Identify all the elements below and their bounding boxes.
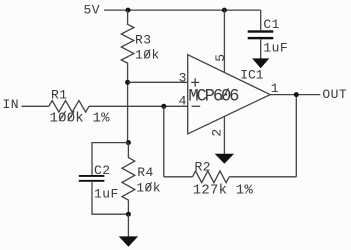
junction C2/R4 bottom (126, 212, 131, 217)
wire C1 drop (260, 10, 262, 30)
junction 5V/pin5 (222, 8, 227, 13)
svg-text:100k 1%: 100k 1% (50, 110, 111, 126)
svg-text:1: 1 (271, 81, 279, 96)
pin 5 wire (223, 10, 225, 73)
svg-text:C1: C1 (263, 17, 280, 32)
wire C2 top (92, 143, 128, 175)
svg-text:1uF: 1uF (94, 187, 119, 202)
svg-text:R3: R3 (135, 32, 152, 47)
svg-text:127k 1%: 127k 1% (193, 183, 254, 199)
wire R1 to pin4 (89, 105, 188, 107)
junction 5V/R3 (126, 8, 131, 13)
svg-text:2: 2 (209, 128, 224, 136)
svg-text:3: 3 (179, 70, 187, 85)
svg-text:4: 4 (179, 93, 187, 108)
wire output (270, 94, 320, 96)
svg-text:5V: 5V (84, 3, 101, 18)
svg-text:IN: IN (3, 97, 20, 112)
wire pin3 row (128, 81, 188, 83)
ground at pin 2 (215, 154, 234, 164)
svg-text:OUT: OUT (322, 87, 347, 102)
svg-text:1uF: 1uF (263, 40, 288, 55)
wire to main ground (127, 214, 129, 236)
resistor R3 (121, 10, 134, 143)
opamp plus input symbol (191, 78, 199, 87)
pin 2 wire (223, 117, 225, 155)
resistor R4 (122, 143, 135, 215)
svg-text:10k: 10k (136, 181, 161, 196)
wire C1 to ground (260, 39, 262, 58)
ground at C1 (252, 58, 269, 68)
wire 5V rail (104, 9, 261, 11)
svg-text:IC1: IC1 (240, 67, 264, 82)
junction output node (294, 92, 299, 97)
svg-text:10k: 10k (135, 48, 160, 63)
wire feedback vertical (163, 106, 165, 177)
wire output column vertical (295, 95, 297, 177)
svg-text:5: 5 (213, 54, 228, 62)
wire C2 bottom (92, 182, 128, 214)
ground main (119, 236, 138, 246)
opamp minus input symbol (192, 105, 201, 107)
resistor R2 (193, 171, 230, 183)
svg-text:MCP606: MCP606 (188, 87, 239, 106)
junction feedback node (161, 104, 166, 109)
op-amp IC1 (188, 55, 271, 134)
svg-text:R2: R2 (195, 159, 212, 174)
capacitor C2 (79, 175, 105, 182)
svg-text:R1: R1 (51, 88, 68, 103)
svg-text:R4: R4 (137, 165, 154, 180)
wire feedback to R2 (164, 176, 193, 178)
wire R2 to output column (229, 176, 296, 178)
junction C2/R4 top (126, 140, 131, 145)
svg-text:C2: C2 (94, 163, 111, 178)
wire IN to R1 (22, 105, 49, 107)
resistor R1 (49, 101, 89, 113)
junction R3/pin3 (125, 80, 130, 85)
capacitor C1 (248, 30, 274, 39)
